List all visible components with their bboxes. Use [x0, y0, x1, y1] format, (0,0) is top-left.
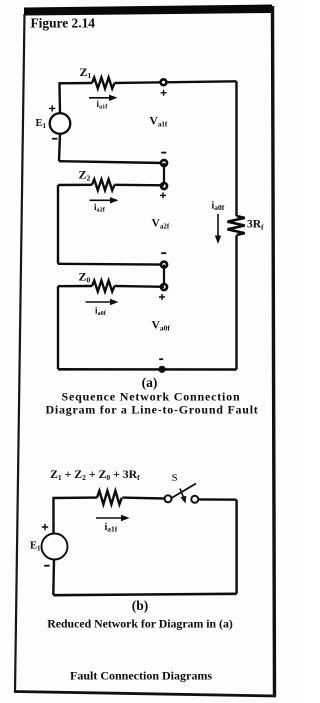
svg-text:ia0f: ia0f [95, 306, 107, 318]
wire: (b) left rail bottom [52, 560, 55, 596]
wire: (a) left rail top, E1 positive terminal up to Z1 lead [60, 83, 93, 114]
polarity plus of E1 (a) [49, 105, 55, 111]
svg-text:ia2f: ia2f [94, 202, 106, 214]
svg-text:Figure 2.14: Figure 2.14 [31, 16, 96, 31]
wire: (a) bottom return wire [58, 368, 237, 371]
wire: (b) right rail [235, 500, 237, 594]
svg-text:Z1: Z1 [80, 65, 92, 80]
svg-text:S: S [172, 472, 178, 484]
svg-text:Va2f: Va2f [152, 218, 170, 231]
node: switch right contact [191, 496, 198, 503]
polarity plus of E1 (b) [42, 524, 48, 530]
node: positive-sequence fault terminal (open dot on top wire) [161, 79, 167, 85]
polarity minus of Va2f [161, 252, 166, 254]
wire: net2 left rail [57, 185, 59, 264]
svg-text:Z1 + Z2 + Z0 + 3Rf: Z1 + Z2 + Z0 + 3Rf [50, 467, 140, 482]
svg-text:Z2: Z2 [79, 168, 91, 183]
node: negative-sequence link upper terminal [161, 160, 167, 166]
figure frame bottom border [14, 692, 276, 697]
current arrow ia1f (b) [96, 517, 122, 519]
wire: net1 bottom wire to negative terminal node [59, 161, 164, 163]
source E1 (a) [50, 113, 71, 134]
figure frame left border [15, 14, 25, 692]
svg-text:(a): (a) [142, 375, 158, 390]
svg-text:Z0: Z0 [79, 270, 91, 285]
svg-text:Diagram for a Line-to-Ground F: Diagram for a Line-to-Ground Fault [45, 403, 258, 417]
svg-text:E1: E1 [36, 118, 47, 130]
polarity plus of Va2f [160, 192, 166, 198]
wire: net2 top wire left lead [58, 184, 92, 187]
wire: net0 top wire right lead to node [115, 285, 165, 288]
svg-text:Sequence Network Connection: Sequence Network Connection [62, 390, 241, 404]
node: network 2 positive terminal [161, 183, 167, 189]
current arrow ia0f (fault branch, downward) [217, 214, 219, 236]
switch S closing arrow [180, 489, 185, 501]
svg-text:ia1f: ia1f [97, 99, 109, 111]
current arrow ia2f [90, 199, 112, 201]
node: switch left contact [165, 495, 172, 502]
wire: net2 bottom wire [58, 263, 164, 266]
figure frame top bar [24, 5, 272, 16]
polarity minus of E1 (a) [52, 138, 57, 140]
wire: (b) top wire from switch to top-right corner [198, 498, 236, 501]
svg-text:(b): (b) [132, 598, 149, 613]
svg-text:Reduced Network for Diagram in: Reduced Network for Diagram in (a) [47, 617, 233, 631]
wire: series link between network 1 and network 2 [163, 163, 165, 186]
figure frame right border [273, 6, 275, 696]
junction dot on bottom wire [158, 366, 165, 373]
wire: (a) left rail from E1 negative down to net1 bottom wire [59, 134, 60, 161]
source E1 (b) [42, 534, 68, 560]
svg-text:E1: E1 [30, 541, 41, 553]
resistor Z0 [92, 281, 114, 292]
wire: (b) bottom return wire [53, 594, 236, 595]
wire: net2 top wire right lead to node [115, 184, 165, 187]
svg-text:ia0f: ia0f [212, 201, 225, 213]
svg-text:Va0f: Va0f [152, 320, 171, 333]
resistor Z1+Z2+Z0+3Rf [97, 491, 122, 505]
svg-text:3Rf: 3Rf [247, 219, 264, 232]
wire: (a) top wire from Z1 to top-right corner through fault node [115, 81, 237, 83]
node: network 2 negative terminal [161, 262, 167, 268]
wire: (a) right rail upper segment [235, 81, 237, 216]
current arrow ia1f [89, 97, 110, 99]
node: network 0 positive terminal [161, 284, 167, 290]
wire: (b) left rail top and top wire to resistor [54, 498, 98, 534]
wire: (a) right rail lower segment [235, 236, 237, 370]
switch S blade [172, 484, 197, 499]
polarity plus of Va1f [161, 90, 167, 96]
polarity minus of Va1f [161, 152, 166, 154]
wire: net0 top wire left lead [58, 285, 92, 288]
polarity plus of Va0f [159, 294, 165, 300]
wire: series link between network 2 and network 0 [163, 265, 165, 287]
svg-text:ia1f: ia1f [105, 522, 118, 534]
polarity minus of Va0f (bottom) [159, 358, 163, 360]
resistor Z1 [92, 78, 114, 89]
svg-text:Va1f: Va1f [150, 116, 168, 129]
wire: net0 left rail [57, 286, 59, 369]
resistor Z2 [92, 179, 114, 190]
svg-text:Fault Connection Diagrams: Fault Connection Diagrams [70, 669, 212, 683]
wire: (b) top wire from resistor to switch left node [123, 496, 165, 499]
current arrow ia0f [86, 301, 111, 303]
resistor 3Rf [228, 216, 245, 235]
polarity minus of E1 (b) [44, 565, 49, 567]
